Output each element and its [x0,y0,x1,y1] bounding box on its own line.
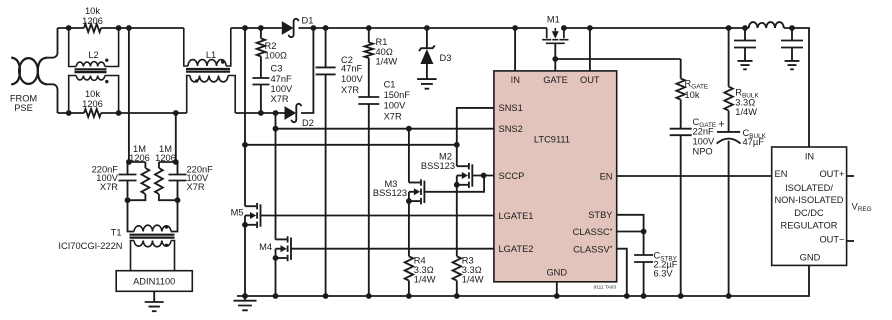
wire RC bus left [128,161,146,163]
transistor M4 [276,238,287,240]
svg-text:R3: R3 [462,256,474,266]
wire top rail mid [231,27,282,29]
svg-text:6.3V: 6.3V [654,269,674,279]
svg-text:100V: 100V [384,100,407,110]
transistor M1 [542,28,568,43]
svg-text:+: + [718,118,724,130]
IC U1 LTC9111 [494,71,617,282]
wire OUT+ stub [847,175,854,177]
wire rail tap to sense [245,28,457,145]
svg-text:X7R: X7R [384,111,402,121]
wire bottom rail to L1 [101,112,187,114]
svg-text:D2: D2 [302,118,314,128]
wire RC to T1 right [171,200,178,231]
wire bottom rail [237,265,809,296]
svg-text:M1: M1 [547,15,560,25]
svg-text:NPO: NPO [693,147,713,157]
capacitor CBULK [717,131,740,133]
resistor RGATE [677,59,685,129]
svg-text:3.3Ω: 3.3Ω [414,265,434,275]
svg-text:BSS123: BSS123 [373,188,407,198]
transistor M2 [457,165,468,167]
wire M3 gate to SCCP [425,176,485,192]
svg-text:CLASSV*: CLASSV* [573,244,613,254]
choke L2 [69,28,119,113]
resistor 10k top [84,24,101,32]
wire bottom rail left [58,112,85,114]
svg-text:X7R: X7R [100,182,118,192]
wire CLASSV [617,249,627,296]
svg-text:REGULATOR: REGULATOR [781,221,838,231]
svg-text:L1: L1 [206,50,216,60]
svg-text:10k: 10k [85,89,100,99]
ground main rail [234,296,257,310]
svg-text:ADIN1100: ADIN1100 [133,277,175,287]
capacitor CGATE [670,129,692,136]
svg-text:DC/DC: DC/DC [794,208,824,218]
svg-text:SNS1: SNS1 [499,103,523,113]
capacitor 220nF left [127,162,129,200]
svg-text:R4: R4 [414,256,426,266]
node dots L2 rails [66,25,122,116]
svg-text:1/4W: 1/4W [735,107,757,117]
wire OUT- stub [847,240,854,242]
diode D1 [282,21,294,35]
wire PSE lower conductor [46,84,58,113]
wire EN [617,175,772,177]
svg-text:CLASSC*: CLASSC* [573,227,613,237]
wire SCCP [472,175,494,177]
svg-text:3.3Ω: 3.3Ω [462,265,482,275]
IC ADIN1100 [116,271,192,292]
svg-text:D1: D1 [302,16,314,26]
svg-text:ISOLATED/: ISOLATED/ [785,183,833,193]
svg-text:1206: 1206 [82,16,103,26]
svg-text:BSS123: BSS123 [421,161,455,171]
regulator box [772,147,847,265]
svg-text:SNS2: SNS2 [499,124,523,134]
wire SNS2 line [276,113,494,240]
svg-text:47nF: 47nF [341,64,363,74]
resistor 1M right [155,162,178,200]
node dots bottom rail [242,293,731,299]
ground ADIN1100 [145,291,164,311]
resistor 1M left [128,162,150,200]
capacitor CSTBY [643,232,645,297]
svg-text:100V: 100V [693,137,716,147]
wire top rail right [564,28,809,147]
wire IN pin [514,28,516,71]
inductor L1 [184,28,235,113]
wire STBY [617,215,644,232]
svg-text:40Ω: 40Ω [376,47,393,57]
svg-text:PSE: PSE [14,103,33,113]
wire tap top rail to RC bus [128,28,130,162]
pi filter cap 1 [738,28,753,69]
pi filter cap 2 [785,28,800,69]
svg-text:FROM: FROM [10,93,37,103]
wire GATE pin [554,43,556,71]
svg-text:1206: 1206 [82,99,103,109]
svg-text:IN: IN [511,75,520,85]
capacitor C2 [325,28,327,296]
svg-text:150nF: 150nF [384,90,411,100]
svg-text:LGATE1: LGATE1 [499,211,534,221]
wire RC to T1 left [128,200,135,231]
resistor R1 [365,28,373,58]
svg-text:10k: 10k [85,6,100,16]
svg-text:M5: M5 [231,207,244,217]
svg-text:EN: EN [775,169,788,179]
svg-text:9111 TA03: 9111 TA03 [594,285,617,291]
wire PSE upper conductor [46,28,58,58]
wire LGATE1 [261,215,494,217]
svg-text:NON-ISOLATED: NON-ISOLATED [774,195,843,205]
svg-text:T1: T1 [111,227,122,237]
svg-text:R1: R1 [376,37,388,47]
capacitor 220nF right [177,162,179,200]
wire LGATE2 [291,248,494,250]
svg-text:1/4W: 1/4W [462,275,484,285]
twisted pair from PSE [11,58,47,85]
wire SNS1 line [457,108,494,145]
svg-text:100V: 100V [271,84,294,94]
transformer T1 [130,225,175,270]
svg-text:47µF: 47µF [743,137,765,147]
svg-text:L2: L2 [88,50,98,60]
wire tap bottom rail to RC bus [175,113,177,162]
wire top rail after D1 [299,27,547,29]
transistor M3 [409,182,420,184]
svg-text:22nF: 22nF [693,127,715,137]
svg-text:LTC9111: LTC9111 [534,134,570,144]
svg-text:GATE: GATE [543,75,568,85]
wire top rail to L1 [101,27,184,29]
diode D2 [285,106,297,120]
zener D3 [426,28,428,48]
wire M4 source to gnd [275,258,277,296]
svg-text:1/4W: 1/4W [414,275,436,285]
svg-text:C1: C1 [384,80,396,90]
svg-text:IN: IN [805,152,814,162]
svg-text:M4: M4 [259,242,272,252]
svg-text:GND: GND [800,252,821,262]
wire D2 to top rail [301,28,313,113]
transistor M5 [245,205,256,207]
svg-text:X7R: X7R [187,182,205,192]
svg-text:1206: 1206 [129,153,150,163]
wire GND pin [556,282,558,296]
svg-text:R2: R2 [265,41,277,51]
resistor R4 [405,201,413,296]
resistor R3 [453,185,461,296]
svg-text:100V: 100V [341,74,364,84]
svg-text:100Ω: 100Ω [265,51,288,61]
svg-text:C3: C3 [271,64,283,74]
svg-text:47nF: 47nF [271,74,293,84]
svg-text:SCCP: SCCP [499,171,525,181]
svg-text:1206: 1206 [155,153,176,163]
svg-text:D3: D3 [440,53,452,63]
node RC bottom junctions [125,197,131,203]
wire gate to RGATE [555,58,680,60]
svg-text:ICI70CGI-222N: ICI70CGI-222N [58,241,122,251]
resistor 10k bottom [84,109,101,117]
capacitor C1 [368,58,370,296]
wire top rail left [58,27,85,29]
svg-text:X7R: X7R [271,94,289,104]
svg-text:1/4W: 1/4W [376,57,398,67]
wire OUT pin [589,28,591,71]
svg-text:STBY: STBY [588,210,612,220]
svg-text:10k: 10k [685,90,700,100]
resistor R2 [257,28,265,56]
svg-text:LGATE2: LGATE2 [499,244,534,254]
svg-text:OUT+: OUT+ [819,169,844,179]
wire M5 source to gnd [244,225,246,296]
svg-text:GND: GND [546,268,567,278]
wire CLASSC [617,231,644,233]
wire D2 line [235,112,284,114]
inductor L3 pi filter [749,22,784,28]
svg-text:OUT−: OUT− [819,235,844,245]
svg-text:OUT: OUT [580,75,600,85]
svg-text:EN: EN [600,171,613,181]
wire RC bus right [159,161,178,163]
svg-text:X7R: X7R [341,85,359,95]
resistor RBULK [724,28,732,132]
capacitor C3 [260,56,262,113]
